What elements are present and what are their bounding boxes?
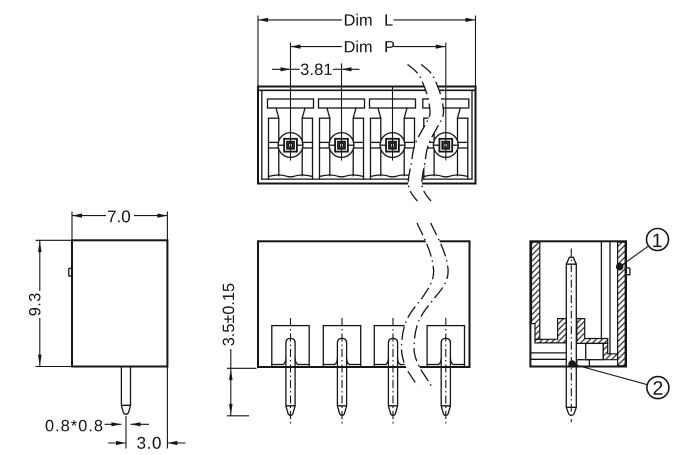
dimension 3.0 arrow right xyxy=(167,441,185,445)
dimension Dim P text xyxy=(345,41,372,53)
callout 2 leader dot xyxy=(568,360,576,368)
front view break line right xyxy=(414,223,448,386)
dimension Dim L extension right xyxy=(475,16,477,87)
dimension Dim L extension left xyxy=(257,16,259,87)
section left clamp foot hatched xyxy=(535,319,566,343)
callout 1 leader line xyxy=(620,246,649,267)
dimension 3.5 extension bottom xyxy=(227,415,249,417)
terminal cell 3 xyxy=(370,99,416,179)
dimension Dim L line right part xyxy=(394,19,476,21)
top view break line right xyxy=(421,65,444,202)
front pin unit 1 xyxy=(272,318,309,425)
dimension 3.0 extension pin center xyxy=(125,416,127,449)
dimension 9.3 extension top xyxy=(36,239,73,241)
dimension 3.5 tolerance text xyxy=(223,284,235,346)
section cavity window xyxy=(586,343,604,359)
dimension Dim P line right part xyxy=(394,46,446,48)
section pin center line xyxy=(570,249,572,423)
top view break band blank xyxy=(408,65,444,202)
dimension 3.5 arrow bottom xyxy=(229,404,233,416)
dimension 7.0 extension left xyxy=(71,212,73,240)
dimension 3.0 text xyxy=(137,437,161,449)
callout 2 leader line xyxy=(572,364,647,385)
dimension 7.0 text xyxy=(108,210,130,222)
side view body outline xyxy=(72,240,167,366)
dimension 9.3 line lower part xyxy=(39,318,41,367)
front pin unit 2 xyxy=(323,318,360,425)
cell 1 center / extension line xyxy=(290,43,292,161)
section right wall hatched xyxy=(618,242,626,366)
dimension 7.0 arrow right xyxy=(157,214,167,218)
dimension 3.81 line right stub xyxy=(333,68,342,70)
section lower shelf line lower xyxy=(532,358,567,360)
terminal cell 4 xyxy=(423,99,469,179)
section right clamp foot hatched xyxy=(577,319,608,344)
dimension 3.5 arrow top xyxy=(229,368,233,380)
side view pin xyxy=(121,367,130,415)
front view break band blank xyxy=(401,223,448,386)
dimension 3.5 extension top xyxy=(227,367,257,369)
section sleeve line inner xyxy=(600,242,602,338)
side view latch tab xyxy=(69,268,72,276)
dimension Dim P arrow left xyxy=(291,45,301,49)
callout 1 balloon xyxy=(647,229,669,251)
dimension 0.8*0.8 text xyxy=(46,420,103,432)
top view body outline xyxy=(258,87,476,184)
dimension 7.0 arrow left xyxy=(72,214,82,218)
section pin xyxy=(566,257,576,415)
dimension Dim L letter L xyxy=(385,14,392,25)
top view inner left wall xyxy=(261,90,263,179)
dimension 9.3 arrow bottom xyxy=(38,355,42,367)
dimension 9.3 line upper part xyxy=(39,240,41,291)
dimension 3.81 text xyxy=(301,64,332,76)
section left wall hatched xyxy=(532,242,540,339)
dimension 3.0 arrow left xyxy=(108,441,126,445)
section lower shelf line upper xyxy=(532,352,567,354)
dimension 3.0 extension right xyxy=(166,367,168,449)
cell 4 center / extension line xyxy=(445,43,447,161)
dimension 7.0 line right part xyxy=(134,215,167,217)
section sleeve line outer xyxy=(609,242,611,354)
dimension Dim P line left part xyxy=(291,46,342,48)
top view inner right wall xyxy=(471,90,473,179)
dimension 0.8*0.8 arrow left xyxy=(105,422,122,426)
section mid step hatched xyxy=(603,343,617,359)
cell 2 center / extension line xyxy=(341,63,343,160)
callout 2 number xyxy=(654,381,663,395)
dimension 3.5 line xyxy=(230,349,232,416)
section latch tab xyxy=(625,267,630,274)
dimension Dim L arrow left xyxy=(258,18,268,22)
dimension 9.3 arrow top xyxy=(38,240,42,252)
dimension 7.0 line left part xyxy=(72,215,106,217)
dimension 3.81 outside arrow right xyxy=(342,67,360,71)
dimension 9.3 text xyxy=(29,294,41,316)
callout 1 number xyxy=(653,234,661,247)
dimension 0.8*0.8 arrow right xyxy=(131,422,150,426)
terminal cell 2 xyxy=(319,99,365,179)
cell 3 center line xyxy=(392,87,394,161)
dimension 7.0 extension right xyxy=(166,212,168,240)
dimension 3.81 outside arrow left xyxy=(272,67,291,71)
dimension 3.81 line left stub xyxy=(291,68,300,70)
dimension Dim L arrow right xyxy=(466,18,476,22)
top view inner lip line xyxy=(258,89,476,91)
callout 1 leader dot xyxy=(616,263,624,271)
section body outline xyxy=(530,241,626,366)
dimension Dim L text xyxy=(345,14,372,26)
dimension Dim P arrow right xyxy=(436,45,446,49)
dimension Dim P letter P xyxy=(385,41,394,52)
front view break line left xyxy=(401,223,433,386)
top view break line left xyxy=(408,65,431,202)
section pin seat block xyxy=(577,360,590,367)
terminal cell 1 xyxy=(268,99,314,179)
dimension Dim L line left part xyxy=(258,19,342,21)
front view body outline xyxy=(258,241,470,367)
callout 2 balloon xyxy=(647,377,669,399)
front pin unit 3 xyxy=(374,318,411,425)
top view inner bottom line xyxy=(262,178,472,180)
front pin unit 4 xyxy=(427,318,464,425)
dimension 9.3 extension bottom xyxy=(36,366,73,368)
